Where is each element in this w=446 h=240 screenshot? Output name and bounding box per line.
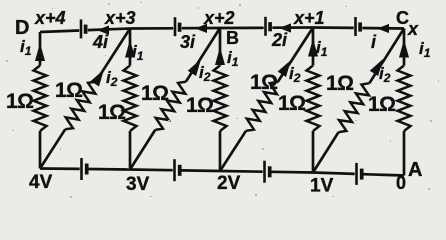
svg-text:1Ω: 1Ω <box>326 72 354 95</box>
resistor R9 1Ω (diagonal branch 4) <box>313 29 404 173</box>
cell 4V (bottom wire) <box>82 158 87 180</box>
wire: top segment 8 <box>362 27 404 30</box>
svg-text:x+4: x+4 <box>34 8 66 28</box>
current arrow i1 (branch 1, upward) <box>20 37 45 61</box>
svg-text:x+1: x+1 <box>293 8 325 28</box>
svg-text:1Ω: 1Ω <box>250 71 278 94</box>
svg-text:2V: 2V <box>217 173 241 194</box>
wire: top segment 3 <box>130 27 173 30</box>
resistor R5 1Ω (vertical branch 5) <box>368 29 411 176</box>
current arrow i1 (branch 5, upward) <box>399 39 431 60</box>
svg-text:B: B <box>226 28 239 48</box>
wire: bottom segment 2 <box>88 168 130 171</box>
wire: top segment 4 <box>182 27 220 30</box>
current arrow i1 (branch 3, upward) <box>215 47 239 69</box>
current arrow i2 (diagonal branch 2, up-right) <box>188 59 211 84</box>
wire: top segment 6 <box>272 26 313 29</box>
svg-text:0: 0 <box>396 173 406 193</box>
svg-text:1Ω: 1Ω <box>141 82 169 105</box>
svg-text:1Ω: 1Ω <box>6 90 34 113</box>
svg-text:D: D <box>15 17 29 39</box>
svg-text:x+2: x+2 <box>203 8 235 28</box>
cell E4 (top wire) <box>356 17 361 36</box>
cell 3V (bottom wire) <box>175 159 180 181</box>
cell E3 (top wire) <box>266 17 271 36</box>
current arrow i1 (branch 2, upward) <box>125 40 144 64</box>
cell 1V (bottom wire) <box>357 163 362 185</box>
current arrow 3i (top wire, leftward) <box>180 24 207 52</box>
wire: bottom segment 1 <box>40 167 80 170</box>
current arrow 2i (top wire, leftward) <box>271 23 291 50</box>
wire: bottom segment 7 <box>313 173 355 174</box>
current arrow 4i (top wire, leftward) <box>92 26 109 53</box>
current arrow i1 (branch 4, upward) <box>308 38 328 59</box>
wire: bottom segment 8 <box>363 174 404 175</box>
cell E2 (top wire) <box>175 17 180 36</box>
wire: top segment 2 <box>88 29 130 31</box>
wire: bottom segment 6 <box>271 170 313 173</box>
wire: bottom segment 3 <box>130 168 173 171</box>
resistor R4 1Ω (vertical branch 4) <box>278 28 320 173</box>
wire: top segment 1 <box>40 31 79 33</box>
svg-text:A: A <box>408 159 422 181</box>
svg-text:1Ω: 1Ω <box>186 94 214 117</box>
current arrow i2 (diagonal branch 3, up-right) <box>278 60 301 85</box>
cell 2V (bottom wire) <box>265 161 270 183</box>
svg-text:1Ω: 1Ω <box>98 101 126 124</box>
resistor R3 1Ω (vertical branch 3) <box>186 28 227 171</box>
svg-text:1Ω: 1Ω <box>278 92 306 115</box>
wire: top segment 7 <box>313 26 354 29</box>
current arrow i2 (diagonal branch 4, up-right) <box>370 59 391 85</box>
svg-text:C: C <box>396 8 409 28</box>
resistor R1 1Ω (vertical branch 1) <box>6 32 47 169</box>
resistor R8 1Ω (diagonal branch 3) <box>220 28 313 172</box>
wire: bottom segment 4 <box>181 169 220 172</box>
wire: top segment 5 <box>220 26 264 29</box>
current arrow i2 (diagonal branch 1, up-right) <box>91 68 118 89</box>
svg-text:2i: 2i <box>271 30 288 50</box>
svg-text:x+3: x+3 <box>104 8 136 28</box>
svg-text:3V: 3V <box>126 174 150 195</box>
resistor R6 1Ω (diagonal branch 1) <box>40 29 130 169</box>
svg-text:4V: 4V <box>29 172 53 193</box>
resistor R7 1Ω (diagonal branch 2) <box>130 28 220 170</box>
svg-text:3i: 3i <box>180 32 196 52</box>
resistor R2 1Ω (vertical branch 2) <box>98 29 137 170</box>
wire: bottom segment 5 <box>220 170 263 173</box>
svg-text:1Ω: 1Ω <box>55 79 83 102</box>
current arrow i (top wire, leftward) <box>371 24 389 52</box>
svg-text:1V: 1V <box>310 176 334 197</box>
svg-text:1Ω: 1Ω <box>368 93 396 116</box>
svg-text:4i: 4i <box>92 32 109 52</box>
cell E1 (top wire) <box>81 19 86 38</box>
